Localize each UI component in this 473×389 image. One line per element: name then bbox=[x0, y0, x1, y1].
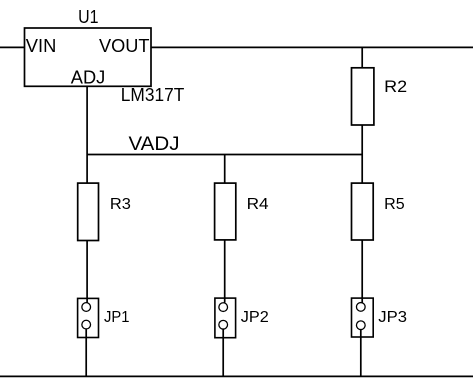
wire R5 bottom to JP3 bbox=[361, 240, 363, 303]
wire JP1 to bottom rail bbox=[85, 329, 87, 376]
wire VOUT right rail bbox=[151, 46, 473, 48]
svg-text:LM317T: LM317T bbox=[121, 84, 185, 105]
svg-text:R2: R2 bbox=[384, 78, 407, 96]
svg-text:VOUT: VOUT bbox=[99, 36, 150, 56]
svg-text:R4: R4 bbox=[247, 196, 269, 213]
JP1 pad 1 bbox=[82, 303, 91, 312]
jumper JP2 body bbox=[215, 298, 236, 338]
svg-text:ADJ: ADJ bbox=[71, 68, 106, 88]
wire ADJ down bbox=[86, 86, 88, 154]
resistor R2 bbox=[352, 68, 374, 125]
svg-text:R5: R5 bbox=[384, 196, 405, 213]
resistor R5 bbox=[352, 183, 374, 240]
svg-text:JP3: JP3 bbox=[378, 309, 407, 326]
JP2 pad 2 bbox=[219, 320, 228, 329]
JP3 pad 2 bbox=[356, 321, 365, 330]
wire JP3 to bottom rail bbox=[360, 330, 362, 376]
wire JP2 to bottom rail bbox=[222, 330, 224, 377]
wire R2 top bbox=[361, 47, 363, 67]
svg-text:VADJ: VADJ bbox=[129, 134, 180, 155]
wire VADJ rail bbox=[87, 154, 362, 156]
svg-text:R3: R3 bbox=[110, 196, 131, 213]
jumper JP3 body bbox=[352, 298, 374, 337]
wire R4 top bbox=[224, 155, 226, 184]
svg-text:VIN: VIN bbox=[26, 36, 57, 56]
wire bottom rail bbox=[0, 375, 473, 377]
svg-text:JP1: JP1 bbox=[104, 309, 130, 326]
JP1 pad 2 bbox=[82, 320, 91, 329]
wire R3 bottom to JP1 bbox=[86, 241, 88, 303]
jumper JP1 body bbox=[78, 298, 99, 337]
JP3 pad 1 bbox=[356, 303, 365, 312]
op-amp U1 body (LM317T regulator box) bbox=[25, 28, 152, 86]
wire R2 bottom to R5 top bbox=[361, 125, 363, 183]
resistor R3 bbox=[78, 183, 99, 240]
JP2 pad 1 bbox=[219, 303, 228, 312]
wire VIN left bbox=[0, 46, 25, 48]
wire R4 bottom to JP2 bbox=[224, 240, 226, 303]
resistor R4 bbox=[215, 183, 236, 240]
svg-text:U1: U1 bbox=[78, 7, 98, 27]
wire R3 top bbox=[86, 155, 88, 184]
svg-text:JP2: JP2 bbox=[241, 309, 269, 326]
